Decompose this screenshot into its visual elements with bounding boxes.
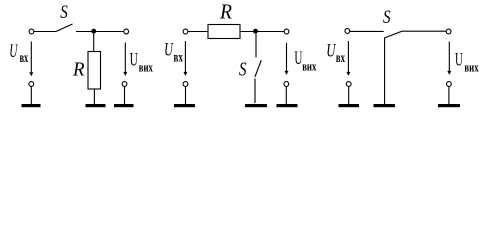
svg-text:U: U	[9, 41, 18, 62]
svg-text:R: R	[72, 59, 84, 81]
svg-text:U: U	[326, 40, 336, 61]
svg-text:R: R	[219, 0, 232, 23]
svg-text:вих: вих	[302, 58, 317, 73]
svg-text:S: S	[239, 60, 247, 81]
svg-text:вих: вих	[464, 60, 479, 75]
svg-text:S: S	[60, 2, 68, 23]
svg-text:вх: вх	[174, 50, 183, 65]
svg-text:U: U	[164, 39, 174, 60]
svg-text:вх: вх	[20, 51, 29, 66]
svg-text:U: U	[130, 50, 138, 71]
svg-text:U: U	[455, 50, 463, 71]
svg-text:вих: вих	[139, 59, 153, 74]
svg-text:S: S	[383, 7, 391, 28]
svg-text:вх: вх	[336, 51, 345, 66]
